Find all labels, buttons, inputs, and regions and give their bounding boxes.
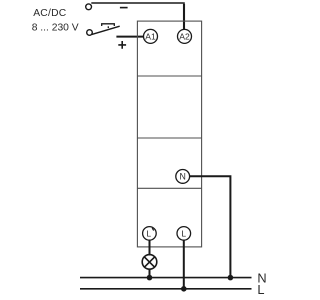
svg-text:L: L (257, 282, 264, 297)
divider 1 (137, 75, 201, 77)
pushbutton S1 (87, 24, 120, 36)
svg-text:L: L (146, 229, 151, 239)
junction: N wire on N bus (228, 275, 234, 281)
junction: L wire on L bus (181, 286, 187, 292)
wire: L' terminal to lamp (149, 240, 151, 255)
terminal: minus supply (86, 4, 92, 10)
divider 2 (137, 137, 201, 139)
N bus wire (80, 277, 252, 279)
svg-text:N: N (180, 172, 186, 182)
L bus wire (80, 288, 252, 290)
svg-text:A1: A1 (145, 31, 156, 41)
wire: minus supply to A2 (91, 2, 184, 29)
divider 3 (137, 187, 201, 189)
svg-text:AC/DC: AC/DC (33, 8, 67, 19)
junction: lamp on N bus (147, 275, 153, 281)
svg-text:8 ... 230 V: 8 ... 230 V (32, 23, 79, 34)
svg-text:L: L (181, 229, 186, 239)
terminal A2 (178, 29, 192, 43)
wire: lamp to N bus (149, 269, 151, 277)
wire: L terminal to L bus (183, 240, 185, 288)
terminal L' (143, 227, 157, 241)
label + (plus) (118, 41, 126, 49)
wire: N terminal to N bus (190, 176, 231, 277)
svg-text:A2: A2 (179, 31, 190, 41)
terminal N (176, 170, 190, 184)
label − (minus) (120, 7, 128, 9)
terminal L (177, 227, 191, 241)
device box (137, 21, 201, 247)
lamp E1 (142, 255, 157, 270)
terminal A1 (144, 29, 158, 43)
wire: pushbutton to A1 (116, 36, 144, 38)
